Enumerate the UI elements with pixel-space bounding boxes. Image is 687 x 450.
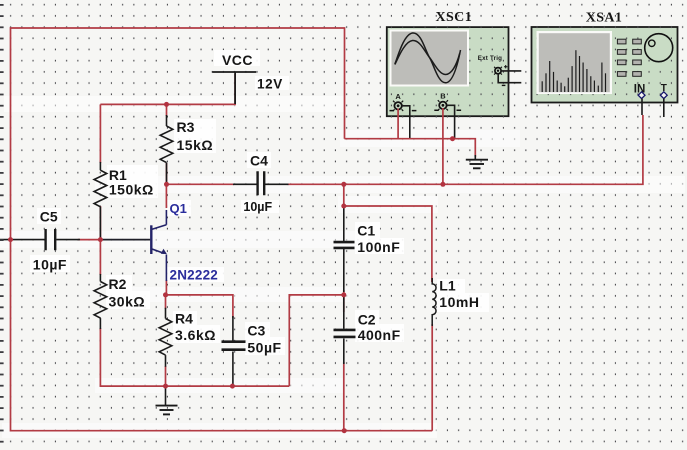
- svg-text:VCC: VCC: [222, 52, 253, 68]
- XSA1 screen: [537, 31, 613, 94]
- svg-text:100nF: 100nF: [357, 239, 400, 255]
- IN pin: [641, 99, 643, 115]
- capacitor C2: [334, 295, 356, 364]
- XSC1 trace A (large sine): [395, 33, 461, 83]
- svg-text:XSC1: XSC1: [435, 10, 472, 25]
- wire: C1 bottom to ground loop: [289, 290, 344, 386]
- node: emitter / R4 top: [163, 292, 168, 297]
- wire: output row C4 to XSA1 IN: [167, 115, 643, 184]
- ground under scope: [466, 155, 488, 168]
- resistor R4: [159, 308, 172, 367]
- svg-text:15kΩ: 15kΩ: [177, 137, 214, 153]
- svg-text:XSA1: XSA1: [586, 10, 623, 25]
- node: R4 bottom / ground rail: [163, 384, 168, 389]
- svg-text:Ext Trig: Ext Trig: [478, 55, 502, 62]
- wire: A terminal drop: [397, 109, 399, 139]
- resistor R1: [94, 162, 107, 240]
- wire: R2 column: [99, 240, 101, 275]
- node: scope ground junction: [450, 136, 455, 141]
- T terminal diamond: [660, 92, 667, 99]
- svg-text:50µF: 50µF: [247, 340, 281, 356]
- B terminal: [434, 100, 461, 110]
- B pin stub: [447, 105, 455, 138]
- svg-text:3.6kΩ: 3.6kΩ: [175, 327, 216, 343]
- transistor Q1: [151, 210, 167, 281]
- capacitor C4: [233, 171, 289, 195]
- node: C2 bottom / bottom rail: [342, 428, 347, 433]
- Ext Trig terminal: [494, 65, 507, 85]
- svg-text:2N2222: 2N2222: [170, 268, 219, 283]
- wire: R4 leads: [165, 295, 167, 386]
- node: C1-C2 midpoint: [341, 292, 346, 297]
- node: scope B tap on output: [440, 182, 445, 187]
- IN terminal diamond: [638, 92, 645, 99]
- spectrum analyzer XSA1 body: [532, 27, 678, 103]
- svg-text:10mH: 10mH: [439, 294, 479, 310]
- svg-text:400nF: 400nF: [358, 327, 401, 343]
- wire: R1 column: [99, 104, 101, 163]
- svg-text:Q1: Q1: [170, 201, 187, 216]
- Ext Trig pin stubs: [498, 71, 521, 83]
- svg-text:L1: L1: [439, 278, 456, 294]
- A terminal: [390, 101, 417, 111]
- svg-text:R4: R4: [175, 311, 193, 327]
- faint white streaks (jpeg-like bleaching around wires): [0, 96, 685, 438]
- resistor R2: [94, 274, 107, 329]
- ground under emitter: [156, 386, 178, 414]
- wire: R3 bottom / collector node: [166, 163, 168, 184]
- XSC1 screen: [390, 30, 470, 87]
- XSA1 knob: [645, 34, 673, 62]
- svg-text:C5: C5: [40, 209, 58, 225]
- capacitor C3: [222, 316, 246, 386]
- svg-text:A: A: [395, 92, 401, 101]
- XSA1 buttons: [617, 39, 641, 76]
- node: C3 bottom: [230, 384, 235, 389]
- oscilloscope XSC1 body: [387, 27, 509, 116]
- svg-text:10µF: 10µF: [243, 200, 272, 214]
- wire: L1 bottom: [431, 324, 433, 431]
- svg-text:R2: R2: [109, 276, 127, 292]
- svg-text:150kΩ: 150kΩ: [109, 182, 154, 198]
- svg-text:C1: C1: [357, 223, 375, 239]
- capacitor C5: [0, 229, 80, 250]
- XSA1 spectrum bars: [542, 50, 605, 92]
- svg-text:C3: C3: [247, 323, 265, 339]
- wire: C2 column: [343, 295, 345, 312]
- svg-text:B: B: [440, 92, 446, 101]
- wire: scope A horizontal: [345, 139, 476, 157]
- node: C1 top / L1 branch: [341, 204, 346, 209]
- svg-text:C4: C4: [250, 153, 268, 169]
- A pin stub: [402, 106, 410, 139]
- inductor L1: [432, 278, 436, 326]
- svg-text:10µF: 10µF: [33, 257, 67, 273]
- VCC power symbol: [212, 72, 256, 104]
- svg-text:R3: R3: [177, 119, 195, 135]
- wire: collector stub: [165, 184, 167, 208]
- wire: tank column: [344, 184, 432, 282]
- node: input at C5 left: [8, 237, 13, 242]
- base wire: [100, 239, 150, 241]
- node: output / C4 right: [341, 182, 346, 187]
- node: base / R1-R2 junction: [98, 237, 103, 242]
- node: collector / R3 bottom: [164, 182, 169, 187]
- XSC1 trace B (small sine): [395, 40, 460, 74]
- svg-text:C2: C2: [358, 312, 376, 328]
- wire: emitter row to C3: [166, 295, 233, 318]
- wire: B terminal drop to output: [442, 108, 444, 184]
- wire: emitter stub: [165, 280, 167, 295]
- wire: VCC rail: [100, 74, 235, 104]
- wire: C5 right to base node: [78, 239, 100, 241]
- wire: input node loop left/top: [11, 28, 433, 431]
- label backgrounds: [30, 50, 489, 355]
- node: VCC rail / R3 top: [164, 102, 169, 107]
- resistor R3: [160, 115, 173, 184]
- T pin: [663, 99, 665, 117]
- svg-text:30kΩ: 30kΩ: [109, 294, 146, 310]
- left edge grid ticks: [0, 4, 4, 443]
- svg-text:12V: 12V: [257, 77, 283, 92]
- wire: R3 top lead: [166, 104, 168, 116]
- capacitor C1: [334, 206, 355, 292]
